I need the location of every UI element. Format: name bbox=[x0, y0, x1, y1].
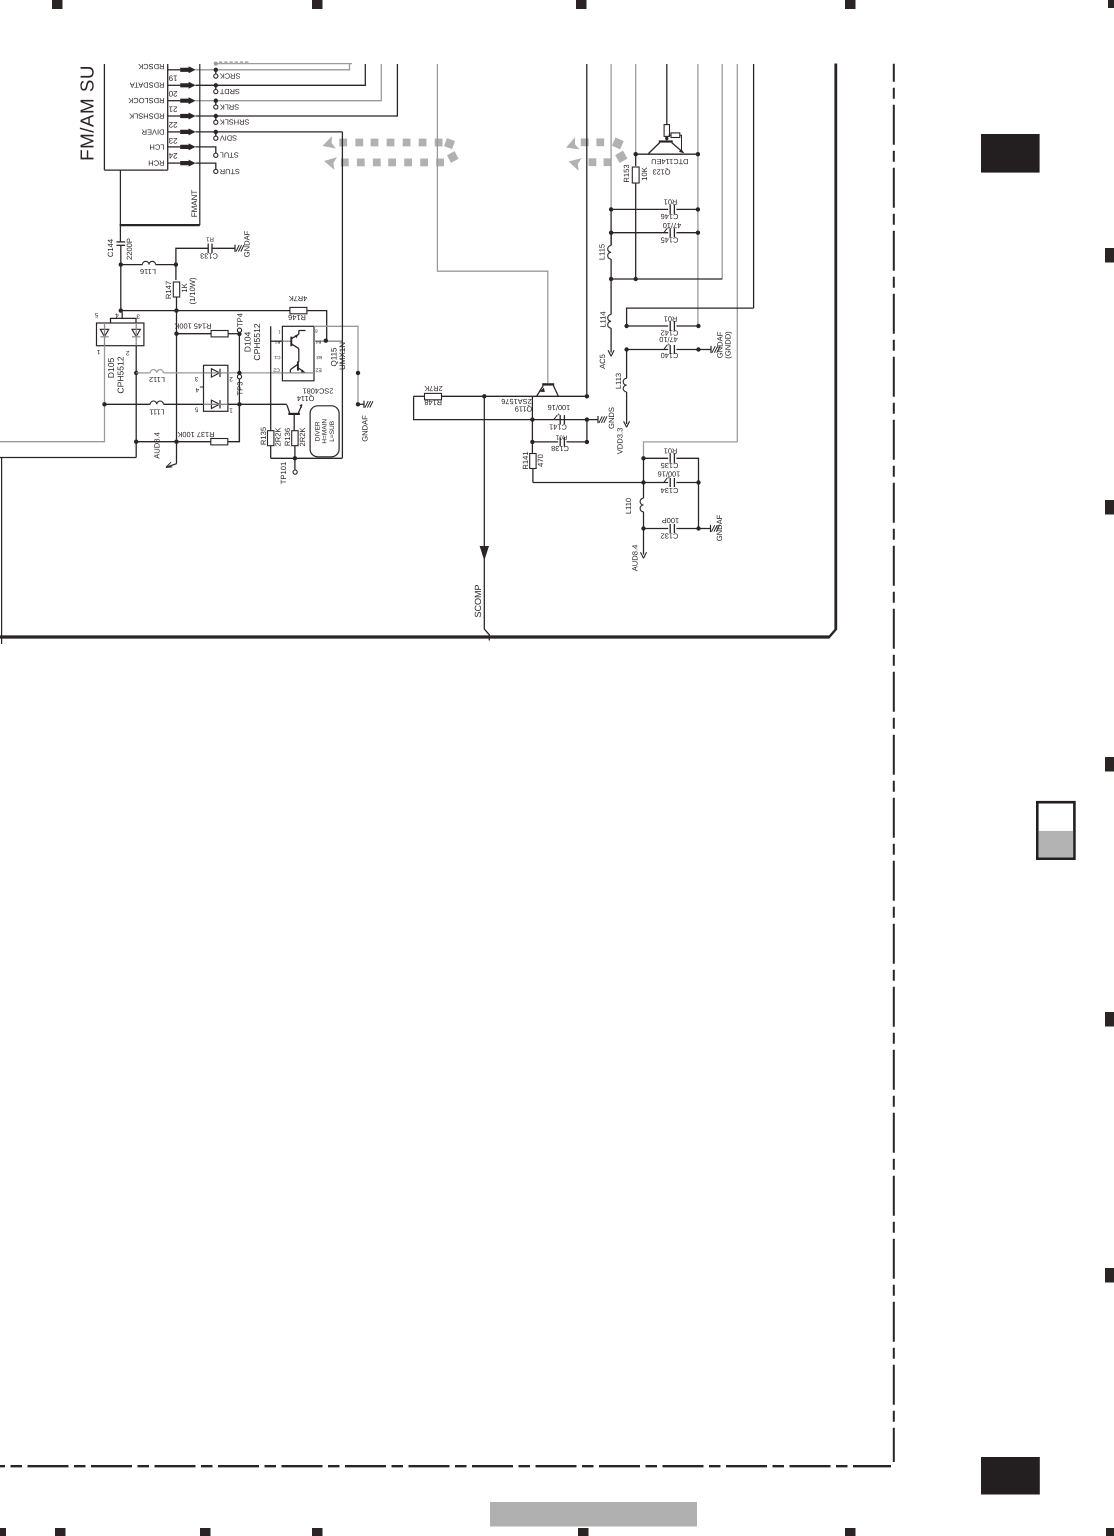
svg-text:SRLK: SRLK bbox=[220, 102, 239, 111]
connector J (pins 19-24) bbox=[104, 64, 167, 170]
svg-text:AUD8.4: AUD8.4 bbox=[153, 432, 162, 459]
photo block bottom right bbox=[981, 1457, 1040, 1495]
svg-text:Q115: Q115 bbox=[329, 347, 338, 367]
svg-text:R145 100K: R145 100K bbox=[174, 322, 211, 331]
svg-text:R141: R141 bbox=[521, 451, 530, 469]
svg-text:20: 20 bbox=[168, 89, 177, 98]
svg-text:D105: D105 bbox=[106, 358, 116, 379]
svg-text:C141: C141 bbox=[549, 423, 567, 432]
wire collector rail bbox=[484, 395, 587, 397]
wire SDIV vertical bbox=[341, 132, 343, 458]
svg-text:+: + bbox=[667, 475, 670, 481]
svg-text:Q119: Q119 bbox=[515, 405, 533, 414]
svg-text:SRCK: SRCK bbox=[220, 72, 241, 81]
node SRCK bbox=[214, 68, 218, 72]
wire STUR stub bbox=[196, 163, 216, 169]
signal arrow DIVER bbox=[180, 128, 195, 135]
wire D105 pin2 bbox=[135, 346, 137, 458]
node L111/R137 bbox=[237, 402, 241, 406]
svg-text:L111: L111 bbox=[149, 407, 164, 416]
signal arrow LCH bbox=[180, 143, 195, 150]
ground GNDS bbox=[597, 416, 599, 423]
svg-text:L112: L112 bbox=[149, 375, 165, 384]
transistor Q123 DTC114EU bbox=[649, 125, 689, 177]
svg-text:SRDT: SRDT bbox=[219, 87, 240, 96]
svg-text:DIVER: DIVER bbox=[314, 421, 321, 441]
wire emitter rail bbox=[414, 396, 598, 419]
svg-text:VDD3.3: VDD3.3 bbox=[615, 428, 624, 455]
svg-text:GNDAF: GNDAF bbox=[242, 230, 251, 257]
test point TP101 bbox=[294, 458, 296, 470]
svg-text:C146: C146 bbox=[661, 212, 679, 221]
svg-text:B4: B4 bbox=[315, 340, 321, 345]
capacitor C142 R01 bbox=[627, 325, 669, 327]
svg-text:47/10: 47/10 bbox=[663, 221, 682, 230]
svg-text:6: 6 bbox=[315, 329, 318, 334]
diode D105 CPH5512 bbox=[94, 311, 144, 394]
svg-text:1: 1 bbox=[96, 348, 100, 355]
svg-text:4: 4 bbox=[195, 386, 199, 393]
svg-text:R153: R153 bbox=[622, 164, 631, 182]
svg-text:E2: E2 bbox=[315, 367, 321, 373]
node SRLK bbox=[214, 99, 218, 103]
node R137 bbox=[174, 440, 178, 444]
svg-text:+: + bbox=[557, 412, 560, 418]
photo block top right bbox=[981, 134, 1040, 173]
resistor R136 2R2K bbox=[292, 431, 298, 446]
capacitor C146 R01 bbox=[611, 208, 668, 210]
ground GNDAF bbox=[234, 245, 236, 252]
capacitor C141 100/16 bbox=[559, 415, 561, 424]
resistor R135 2R2K bbox=[270, 326, 272, 431]
diode D104 CPH5512 bbox=[194, 323, 262, 413]
svg-text:GNDAF: GNDAF bbox=[715, 514, 724, 541]
svg-text:C135: C135 bbox=[661, 461, 679, 470]
svg-text:1: 1 bbox=[278, 330, 281, 335]
wire R141 to C134 row bbox=[533, 482, 644, 484]
inductor L115 bbox=[610, 233, 612, 246]
svg-text:RDSHSLK: RDSHSLK bbox=[129, 111, 164, 120]
svg-text:R01: R01 bbox=[664, 446, 678, 455]
svg-text:L116: L116 bbox=[140, 267, 156, 276]
svg-text:5: 5 bbox=[194, 406, 198, 413]
svg-text:STUR: STUR bbox=[220, 167, 240, 176]
svg-text:+: + bbox=[667, 342, 670, 348]
svg-text:SRHSLK: SRHSLK bbox=[220, 118, 250, 127]
legend box half gray bbox=[1037, 802, 1074, 859]
svg-text:DTC114EU: DTC114EU bbox=[651, 157, 688, 166]
resistor R147 1K(1/10W) bbox=[175, 265, 177, 280]
svg-text:1: 1 bbox=[229, 406, 233, 413]
wire SRHSLK row bbox=[196, 64, 398, 116]
svg-text:R01: R01 bbox=[664, 198, 678, 207]
wire SRLK row bbox=[196, 64, 382, 101]
transistor Q114 2SC4081 bbox=[287, 387, 334, 431]
svg-text:R135: R135 bbox=[259, 427, 268, 445]
svg-text:L110: L110 bbox=[624, 498, 633, 514]
wire Q123 legs row bbox=[636, 153, 698, 155]
svg-text:L114: L114 bbox=[598, 311, 607, 327]
sheet border thick vertical bbox=[834, 64, 837, 630]
svg-text:SDIV: SDIV bbox=[220, 134, 237, 143]
wire FMANT bbox=[119, 170, 121, 225]
board edge line left bbox=[1, 458, 3, 645]
resistor R141 470 bbox=[531, 442, 533, 453]
svg-text:C1: C1 bbox=[274, 355, 280, 360]
transistor Q119 2SA1576 bbox=[501, 384, 558, 413]
net arrow AUD8.4 bbox=[176, 442, 178, 464]
svg-text:24: 24 bbox=[168, 151, 177, 160]
svg-text:C132: C132 bbox=[661, 531, 679, 540]
svg-text:5: 5 bbox=[94, 311, 98, 318]
svg-text:LCH: LCH bbox=[149, 142, 164, 151]
footer gray bar bbox=[490, 1502, 697, 1527]
wire D104 out rows bbox=[228, 372, 283, 374]
flow arrow pair A (to other sheet) bbox=[320, 136, 458, 170]
resistor R146 4R7K bbox=[177, 310, 290, 312]
node STUL bbox=[214, 153, 218, 157]
svg-text:DIVER: DIVER bbox=[141, 127, 165, 136]
svg-text:R148: R148 bbox=[424, 398, 442, 407]
svg-text:R01: R01 bbox=[664, 314, 678, 323]
svg-text:D104: D104 bbox=[243, 332, 253, 353]
svg-text:(1/10W): (1/10W) bbox=[188, 277, 197, 304]
node SRDT bbox=[214, 83, 218, 87]
wire STUL stub bbox=[196, 147, 216, 153]
ground GNDAF bbox=[699, 528, 711, 530]
inductor L116 bbox=[121, 264, 143, 266]
node SRHSLK bbox=[214, 114, 218, 118]
svg-text:23: 23 bbox=[168, 136, 177, 145]
svg-text:RDSDATA: RDSDATA bbox=[130, 81, 165, 90]
svg-text:2R2K: 2R2K bbox=[273, 428, 282, 447]
svg-text:21: 21 bbox=[168, 105, 177, 114]
svg-text:2: 2 bbox=[125, 349, 129, 356]
svg-text:(GNDD): (GNDD) bbox=[723, 331, 732, 359]
capacitor C138 R01 bbox=[531, 420, 533, 442]
node L116/R147 bbox=[174, 262, 178, 266]
signal arrow RCH bbox=[180, 160, 195, 167]
svg-text:B3: B3 bbox=[316, 355, 322, 360]
wire SRDT row bbox=[196, 64, 366, 85]
svg-text:AC5: AC5 bbox=[598, 354, 607, 369]
svg-text:19: 19 bbox=[168, 74, 177, 83]
wire VDD net elbow bbox=[627, 308, 754, 326]
net remnant (cut row) bbox=[216, 63, 352, 65]
capacitor C134 100/16 bbox=[643, 458, 645, 482]
node L112 bbox=[134, 371, 138, 375]
wire R146 feed bbox=[174, 308, 178, 312]
ground GNDAF bbox=[358, 403, 364, 405]
node R145 bbox=[174, 332, 178, 336]
wire feed C135 bbox=[644, 442, 738, 458]
svg-text:H=MAIN: H=MAIN bbox=[322, 419, 329, 444]
svg-text:Q114: Q114 bbox=[297, 394, 315, 403]
svg-text:C133: C133 bbox=[200, 252, 218, 261]
node SDIV bbox=[214, 130, 218, 134]
svg-text:GNDS: GNDS bbox=[607, 407, 616, 429]
svg-text:3: 3 bbox=[136, 312, 140, 319]
wire to Q119 base bbox=[437, 64, 547, 383]
wire TP4-TP3 bbox=[238, 334, 240, 442]
node L111 bbox=[102, 402, 106, 406]
test point TP4 bbox=[237, 332, 241, 336]
svg-text:FM/AM SU: FM/AM SU bbox=[77, 65, 98, 161]
svg-text:FMANT: FMANT bbox=[190, 190, 199, 218]
svg-text:100P: 100P bbox=[662, 516, 679, 525]
inductor L113 bbox=[626, 350, 628, 379]
svg-text:C140: C140 bbox=[661, 351, 679, 360]
svg-text:R146: R146 bbox=[288, 313, 306, 322]
svg-text:100/16: 100/16 bbox=[548, 403, 571, 412]
svg-text:TP4: TP4 bbox=[235, 313, 244, 327]
svg-text:4: 4 bbox=[115, 312, 119, 319]
wire bus verticals bbox=[586, 64, 588, 396]
svg-text:4R7K: 4R7K bbox=[289, 294, 308, 303]
svg-text:L115: L115 bbox=[597, 244, 606, 260]
transistor Q115 UMX1N bbox=[271, 326, 347, 381]
node TP3 bbox=[237, 371, 241, 375]
inductor L114 bbox=[610, 279, 612, 315]
wire to edge (AUD8.4 net) bbox=[0, 457, 136, 459]
net arrow SCOMP bbox=[483, 396, 485, 546]
resistor R145 100K bbox=[177, 333, 212, 335]
capacitor C140 47/10 bbox=[627, 349, 669, 351]
svg-text:C2: C2 bbox=[273, 366, 280, 372]
svg-text:L=SUB: L=SUB bbox=[329, 421, 336, 442]
node C144/L116 bbox=[119, 262, 123, 266]
capacitor C144 2200P bbox=[116, 241, 125, 243]
resistor R153 10K bbox=[635, 154, 637, 166]
resistor R137 100K bbox=[136, 441, 210, 443]
net arrow AC5 bbox=[608, 350, 611, 356]
svg-text:RDSCK: RDSCK bbox=[138, 62, 164, 71]
wire D105 pin1 bbox=[104, 346, 106, 405]
svg-text:2200P: 2200P bbox=[125, 238, 134, 260]
svg-text:C138: C138 bbox=[551, 444, 569, 453]
svg-text:10K: 10K bbox=[640, 167, 649, 181]
svg-text:470: 470 bbox=[536, 454, 545, 467]
svg-text:R147: R147 bbox=[164, 281, 173, 299]
fold dash-dot vertical bbox=[893, 64, 895, 1462]
svg-text:RDSLOCK: RDSLOCK bbox=[128, 96, 164, 105]
wire Q115 collector bbox=[314, 326, 358, 404]
svg-text:R136: R136 bbox=[283, 428, 292, 446]
signal arrow RDSHSLK bbox=[180, 113, 195, 120]
capacitor C133 bbox=[176, 248, 208, 264]
svg-text:L113: L113 bbox=[614, 373, 623, 389]
flow arrow pair B (to other sheet) bbox=[564, 137, 628, 170]
svg-text:C145: C145 bbox=[661, 235, 679, 244]
signal arrow RDSDATA bbox=[180, 82, 195, 89]
wire SRCK row bbox=[196, 64, 350, 70]
svg-text:GNDAF: GNDAF bbox=[360, 415, 369, 442]
fold dash-dot horizontal bottom bbox=[0, 1465, 891, 1467]
capacitor C145 47/10 bbox=[611, 232, 668, 234]
svg-text:C144: C144 bbox=[106, 239, 115, 257]
svg-text:TP3: TP3 bbox=[235, 382, 244, 396]
svg-text:2R2K: 2R2K bbox=[298, 428, 307, 447]
inductor L112 bbox=[136, 372, 150, 374]
inductor L111 bbox=[105, 403, 151, 405]
node STUR bbox=[214, 169, 218, 173]
svg-text:CPH5512: CPH5512 bbox=[116, 356, 126, 393]
wire R135/R136 common bbox=[271, 457, 343, 459]
ground GNDAF (GNDD) bbox=[698, 349, 711, 351]
svg-text:C134: C134 bbox=[661, 486, 679, 495]
wire L115/R153 row bbox=[611, 278, 722, 280]
svg-text:R01: R01 bbox=[555, 433, 567, 440]
svg-text:2: 2 bbox=[229, 375, 233, 382]
svg-text:2R7K: 2R7K bbox=[424, 384, 443, 393]
net arrow AUD8.4 bbox=[643, 529, 645, 555]
signal arrow RDSLOCK bbox=[180, 97, 195, 104]
svg-text:AUD8.4: AUD8.4 bbox=[631, 545, 640, 572]
svg-text:Q123: Q123 bbox=[652, 167, 670, 176]
svg-text:R1: R1 bbox=[206, 236, 214, 243]
net arrow VDD3.3 bbox=[624, 421, 627, 427]
svg-text:TP101: TP101 bbox=[279, 462, 288, 484]
signal arrow RDSCK bbox=[180, 66, 195, 73]
svg-text:B1: B1 bbox=[274, 340, 280, 345]
resistor R148 2R7K bbox=[414, 395, 425, 397]
wire SDIV row bbox=[196, 131, 343, 133]
svg-text:SCOMP: SCOMP bbox=[473, 584, 483, 617]
capacitor C135 R01 bbox=[644, 457, 669, 459]
sheet border thick horizontal with chamfer bbox=[0, 635, 830, 638]
note box DIVER H=MAIN L=SUB bbox=[310, 406, 339, 457]
svg-text:22: 22 bbox=[168, 120, 177, 129]
capacitor C132 100P bbox=[644, 528, 669, 530]
svg-text:+: + bbox=[667, 225, 670, 231]
wire to edge (gray) bbox=[0, 404, 105, 441]
inductor L110 bbox=[643, 483, 645, 499]
svg-text:R137 100K: R137 100K bbox=[177, 430, 214, 439]
svg-text:STUL: STUL bbox=[220, 151, 239, 160]
svg-text:3: 3 bbox=[194, 375, 198, 382]
svg-text:RCH: RCH bbox=[148, 158, 164, 167]
svg-text:CPH5512: CPH5512 bbox=[252, 323, 262, 360]
